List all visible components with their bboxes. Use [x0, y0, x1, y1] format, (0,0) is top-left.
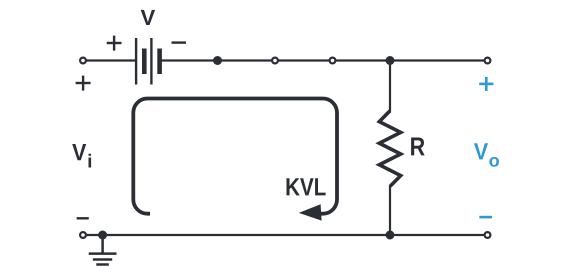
label Vo plus sign (blue): [479, 77, 493, 91]
terminal circle top-left: [80, 58, 86, 64]
label Vo minus sign (blue): [479, 216, 492, 219]
terminal circle top-mid-2: [330, 58, 336, 64]
wire right branch upper: [389, 61, 391, 112]
terminal circle top-right: [485, 58, 491, 64]
node dot top-right junction: [386, 56, 395, 65]
label Vi: [72, 144, 86, 160]
battery plus sign: [107, 36, 122, 51]
terminal circle bottom-left: [80, 232, 86, 238]
node dot bottom-right junction: [386, 231, 395, 240]
label V: [141, 10, 155, 25]
resistor R: [379, 111, 400, 187]
battery minus sign: [172, 41, 187, 43]
KVL arrowhead: [299, 204, 322, 220]
label Vo (blue): [474, 143, 488, 159]
wire top-right segment: [161, 59, 485, 61]
battery V: [136, 38, 160, 85]
label Vi minus sign: [77, 217, 89, 219]
terminal circle top-mid-1: [272, 58, 278, 64]
wire right branch lower: [389, 186, 391, 236]
label R: [411, 138, 425, 156]
ground: [89, 239, 117, 265]
wire top-left segment: [86, 59, 135, 61]
terminal circle bottom-right: [485, 232, 491, 238]
label Vi plus sign: [76, 76, 91, 91]
label KVL: [287, 178, 326, 195]
node dot top-mid: [213, 56, 222, 65]
KVL loop: [133, 99, 337, 214]
node dot bottom-left junction: [98, 231, 107, 240]
wire bottom segment: [86, 234, 484, 236]
